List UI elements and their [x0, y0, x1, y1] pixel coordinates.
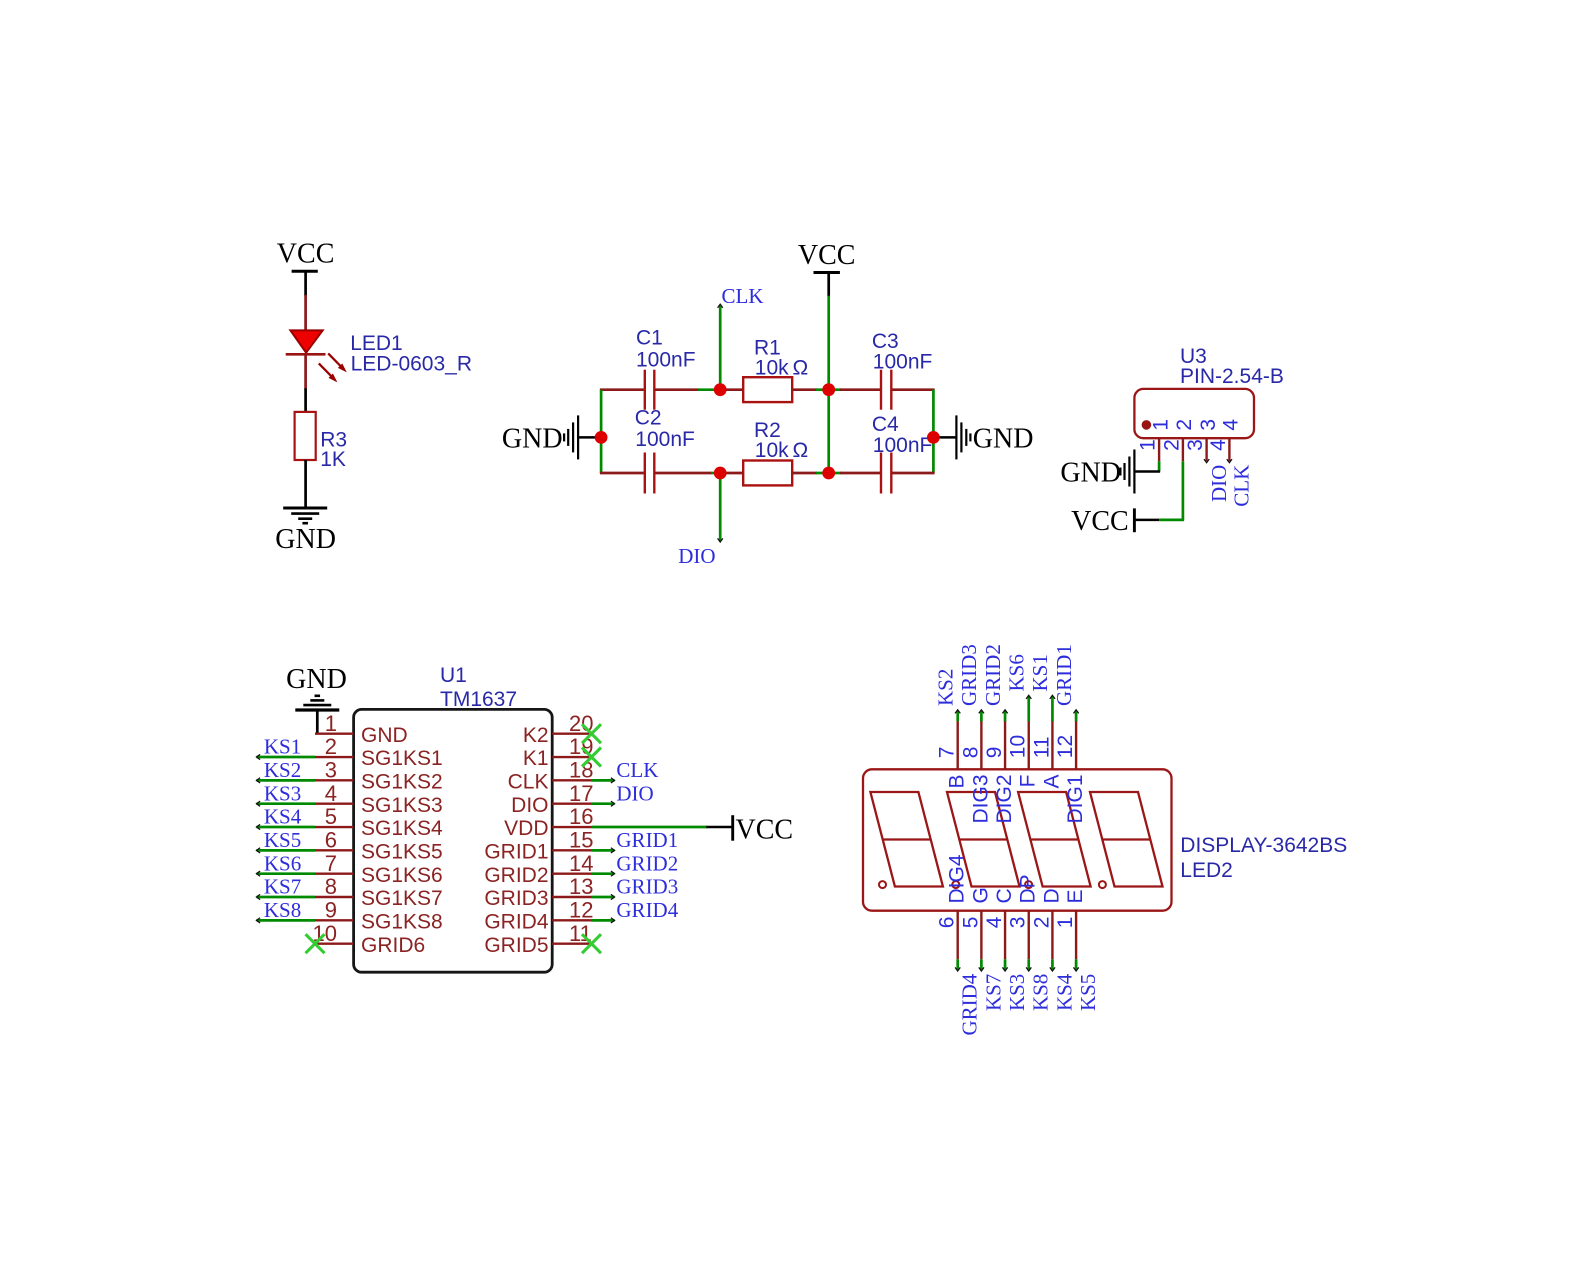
junction node DIO bottom: [714, 467, 727, 480]
LED2 pin name DIG3: [969, 775, 992, 824]
svg-text:U1: U1: [440, 664, 467, 687]
U1 pin 19 stub: [552, 756, 591, 758]
wire GRID1 (U1): [592, 848, 615, 853]
label KS2 net: [264, 758, 301, 782]
label LED2 refdes: [1180, 859, 1233, 882]
U3 pin 3 number (inside): [1197, 419, 1220, 431]
LED2 pin name C: [993, 888, 1016, 903]
svg-text:KS3: KS3: [1005, 974, 1029, 1011]
label GND (filter right): [973, 423, 1034, 454]
U1 pin 10 stub: [315, 942, 354, 944]
wire GRID1 (LED2 top pin 12): [1074, 710, 1079, 722]
U1 pin 2 stub: [315, 756, 354, 758]
svg-text:2: 2: [1160, 439, 1183, 451]
label KS8 net: [264, 898, 301, 922]
label C2 refdes: [635, 406, 662, 429]
U1 pin 2 name SG1KS1: [361, 747, 443, 770]
LED2 pin 1 number: [1054, 917, 1077, 929]
svg-text:11: 11: [1030, 736, 1053, 758]
label DIO net (U1): [616, 781, 653, 805]
svg-text:GRID4: GRID4: [958, 973, 982, 1035]
LED2 pin name DIG1: [1064, 775, 1087, 824]
junction node GND right: [927, 431, 940, 444]
svg-text:G: G: [969, 887, 992, 903]
label KS7 net: [264, 875, 301, 899]
svg-text:C3: C3: [872, 330, 899, 353]
svg-text:SG1KS6: SG1KS6: [361, 864, 443, 887]
svg-text:E: E: [1064, 889, 1087, 903]
U3 pin 1 stub: [1158, 438, 1160, 461]
svg-text:VCC: VCC: [1071, 506, 1129, 537]
svg-text:GRID5: GRID5: [484, 934, 548, 957]
LED2 pin 7 number: [936, 747, 959, 759]
VCC port (U1): [733, 815, 793, 846]
wire KS5 (LED2 bottom pin 1): [1074, 959, 1079, 971]
svg-text:1: 1: [325, 711, 337, 736]
label GRID1 net (U1): [616, 828, 678, 852]
LED2 pin 1 stub: [1075, 911, 1077, 960]
LED2 pin name E: [1064, 889, 1087, 903]
LED2 pin 4 number: [983, 916, 1006, 928]
label CLK net: [722, 284, 764, 308]
label LED1 refdes: [350, 332, 403, 355]
label GND (filter left): [502, 423, 563, 454]
svg-text:VCC: VCC: [277, 239, 335, 270]
LED LED1: [286, 295, 347, 390]
svg-text:9: 9: [983, 747, 1006, 759]
label U1 refdes: [440, 664, 467, 687]
svg-text:14: 14: [569, 851, 593, 876]
svg-text:18: 18: [569, 758, 593, 783]
svg-text:KS8: KS8: [264, 898, 301, 922]
label C1 value: [636, 349, 696, 372]
label GRID3 net (LED2 top): [957, 644, 981, 706]
U1 pin 4 number: [325, 781, 337, 806]
LED2 pin 8 stub: [980, 720, 982, 769]
svg-text:CLK: CLK: [722, 284, 764, 308]
decimal point circle digit 4: [1099, 881, 1106, 888]
svg-text:DISPLAY-3642BS: DISPLAY-3642BS: [1180, 834, 1347, 857]
svg-text:GND: GND: [1060, 458, 1121, 489]
U1 pin 6 number: [325, 828, 337, 853]
U3 pin 1 number (outside): [1137, 439, 1160, 451]
wire GRID2 (LED2 top pin 9): [1002, 710, 1007, 722]
svg-text:D: D: [1040, 888, 1063, 903]
svg-text:KS2: KS2: [933, 669, 957, 706]
ground symbol (filter right): [933, 415, 970, 459]
svg-text:C: C: [993, 888, 1016, 903]
wire VCC to LED1 anode: [304, 271, 307, 296]
label KS4 net (LED2 bottom): [1052, 973, 1076, 1011]
svg-text:KS2: KS2: [264, 758, 301, 782]
U1 pin 13 number: [569, 874, 593, 899]
svg-text:GRID2: GRID2: [484, 864, 548, 887]
wire R2 to VCC rail bottom: [792, 472, 829, 475]
svg-text:1K: 1K: [320, 448, 346, 471]
connector U3 body: [1134, 389, 1254, 438]
U1 pin 7 name SG1KS6: [361, 864, 443, 887]
U1 pin 2 number: [325, 734, 337, 759]
LED2 pin name G: [969, 887, 992, 903]
U3 pin4 netport tick: [1227, 459, 1232, 463]
LED2 pin name B: [946, 775, 969, 789]
svg-text:CLK: CLK: [616, 758, 658, 782]
wire C3 to right rail: [892, 388, 934, 391]
label KS2 net (LED2 top): [933, 669, 957, 706]
LED2 pin 3 stub: [1028, 911, 1030, 960]
U1 pin 15 stub: [552, 849, 591, 851]
svg-text:DIG3: DIG3: [969, 775, 992, 824]
U1 pin 12 number: [569, 898, 593, 923]
wire GRID2 (U1): [592, 871, 615, 876]
svg-text:5: 5: [959, 917, 982, 929]
label C1 refdes: [636, 327, 663, 350]
svg-text:KS3: KS3: [264, 781, 301, 805]
svg-text:6: 6: [936, 917, 959, 929]
label R3 value 1K: [320, 448, 346, 471]
wire KS3 (LED2 bottom pin 4): [1002, 959, 1007, 971]
svg-text:1: 1: [1149, 419, 1172, 431]
U1 pin 17 name DIO: [511, 794, 548, 817]
wire U1 pin16 VDD to VCC: [592, 826, 733, 829]
label KS6 net (LED2 top): [1004, 654, 1028, 691]
U3 pin 4 number (inside): [1220, 419, 1243, 431]
U1 pin 8 number: [325, 874, 337, 899]
wire U3 pin2 to VCC: [1159, 461, 1184, 520]
U1 pin 7 stub: [315, 872, 354, 874]
U3 pin-1 mark dot: [1142, 420, 1152, 430]
LED2 pin 12 number: [1054, 735, 1077, 758]
U3 pin 3 stub: [1205, 438, 1207, 461]
svg-text:KS1: KS1: [264, 735, 301, 759]
svg-text:1: 1: [1054, 917, 1077, 929]
svg-text:KS7: KS7: [981, 974, 1005, 1011]
svg-text:SG1KS7: SG1KS7: [361, 887, 443, 910]
svg-text:C1: C1: [636, 327, 663, 350]
wire KS6 (U1 pin 7): [257, 871, 316, 876]
svg-text:KS5: KS5: [1076, 974, 1100, 1011]
LED2 pin 5 stub: [980, 911, 982, 960]
svg-text:4: 4: [1207, 439, 1230, 451]
wire R3 to GND: [304, 460, 307, 508]
LED2 pin 10 number: [1007, 735, 1030, 758]
svg-text:12: 12: [1054, 735, 1077, 758]
svg-text:SG1KS8: SG1KS8: [361, 911, 443, 934]
svg-text:SG1KS2: SG1KS2: [361, 771, 443, 794]
IC U1 body: [354, 709, 553, 972]
svg-text:10k: 10k: [755, 439, 789, 462]
label R2 value 10k ohm: [755, 439, 808, 462]
capacitor C3: [881, 370, 891, 410]
U1 pin 12 stub: [552, 919, 591, 921]
svg-text:GRID1: GRID1: [1052, 644, 1076, 706]
U1 pin 11 stub: [552, 942, 591, 944]
svg-text:KS4: KS4: [1052, 973, 1076, 1011]
no-connect X (U1 pin 11): [582, 934, 601, 953]
label C3 value: [873, 351, 933, 374]
svg-text:GRID2: GRID2: [981, 644, 1005, 706]
svg-text:8: 8: [325, 874, 337, 899]
svg-text:1: 1: [1137, 439, 1160, 451]
label GRID2 net (U1): [616, 851, 678, 875]
junction node CLK top: [714, 383, 727, 396]
svg-text:TM1637: TM1637: [440, 688, 517, 711]
wire KS7 (U1 pin 8): [257, 894, 316, 899]
label KS3 net (LED2 bottom): [1005, 974, 1029, 1011]
svg-text:CLK: CLK: [508, 771, 549, 794]
ground symbol (LED branch): [283, 508, 327, 523]
svg-text:DIG2: DIG2: [993, 775, 1016, 824]
U1 pin 20 stub: [552, 733, 591, 735]
svg-text:DIO: DIO: [511, 794, 548, 817]
svg-text:DP: DP: [1017, 874, 1040, 903]
U1 pin 5 stub: [315, 826, 354, 828]
svg-text:100nF: 100nF: [873, 351, 933, 374]
U1 pin 20 name K2: [523, 724, 549, 747]
U1 pin 1 number: [325, 711, 337, 736]
U1 pin 8 stub: [315, 896, 354, 898]
wire C4 to right rail: [892, 472, 934, 475]
svg-text:VCC: VCC: [736, 815, 794, 846]
wire CLK node to R1: [720, 388, 743, 391]
U3 pin 4 stub: [1228, 438, 1230, 461]
ground symbol (U1 pin1): [295, 696, 339, 710]
LED2 pin 6 number: [936, 917, 959, 929]
LED2 pin 6 stub: [957, 911, 959, 960]
svg-text:KS7: KS7: [264, 875, 301, 899]
wire KS4 (LED2 bottom pin 2): [1050, 959, 1055, 971]
U1 pin 6 name SG1KS5: [361, 841, 443, 864]
label R2 refdes: [754, 419, 781, 442]
label C4 value: [873, 434, 933, 457]
wire R1 to VCC node: [792, 388, 829, 391]
label DIO (U3 pin3): [1207, 465, 1231, 502]
svg-text:10: 10: [1007, 735, 1030, 758]
svg-text:3: 3: [1184, 439, 1207, 451]
U1 pin 9 stub: [315, 919, 354, 921]
label KS5 net (LED2 bottom): [1076, 974, 1100, 1011]
U1 pin 5 name SG1KS4: [361, 817, 443, 840]
svg-text:GRID3: GRID3: [484, 887, 548, 910]
LED2 pin name A: [1040, 775, 1063, 789]
capacitor C2: [645, 453, 655, 494]
svg-text:Ω: Ω: [793, 357, 809, 380]
node CLK netport arrow and wire: [718, 304, 723, 390]
svg-text:4: 4: [325, 781, 337, 806]
svg-text:SG1KS1: SG1KS1: [361, 747, 443, 770]
svg-text:3: 3: [325, 758, 337, 783]
VCC port (filter): [798, 240, 856, 297]
U1 pin 8 name SG1KS7: [361, 887, 443, 910]
label C2 value: [635, 428, 695, 451]
svg-text:C2: C2: [635, 406, 662, 429]
svg-text:DIO: DIO: [1207, 465, 1231, 502]
U1 pin 3 name SG1KS2: [361, 771, 443, 794]
U1 pin 18 number: [569, 758, 593, 783]
LED2 pin 10 stub: [1028, 720, 1030, 769]
capacitor C1: [645, 370, 655, 410]
U1 pin 18 name CLK: [508, 771, 549, 794]
LED2 pin name F: [1017, 775, 1040, 788]
svg-text:GRID3: GRID3: [616, 875, 678, 899]
wire GRID4 (U1): [592, 918, 615, 923]
wire KS7 (LED2 bottom pin 5): [979, 959, 984, 971]
U1 pin 13 stub: [552, 896, 591, 898]
svg-text:4: 4: [1220, 419, 1243, 431]
label C4 refdes: [872, 413, 899, 436]
svg-text:100nF: 100nF: [873, 434, 933, 457]
svg-text:15: 15: [569, 828, 593, 853]
svg-text:SG1KS4: SG1KS4: [361, 817, 443, 840]
label KS5 net: [264, 828, 301, 852]
svg-text:2: 2: [1030, 917, 1053, 929]
svg-text:5: 5: [325, 804, 337, 829]
svg-text:GRID2: GRID2: [616, 851, 678, 875]
wire KS5 (U1 pin 6): [257, 848, 316, 853]
wire KS8 (LED2 bottom pin 3): [1026, 959, 1031, 971]
LED2 pin 9 number: [983, 747, 1006, 759]
svg-text:SG1KS3: SG1KS3: [361, 794, 443, 817]
svg-text:KS6: KS6: [1004, 654, 1028, 691]
LED2 pin name D: [1040, 888, 1063, 903]
LED2 pin 5 number: [959, 917, 982, 929]
U1 pin 16 stub: [552, 826, 591, 828]
wire KS8 (U1 pin 9): [257, 918, 316, 923]
label U3 refdes: [1180, 345, 1207, 368]
wire GND to U1 pin1: [316, 710, 319, 734]
wire top row left segment: [600, 388, 644, 391]
junction node VCC bottom: [822, 467, 835, 480]
svg-text:KS4: KS4: [264, 805, 302, 829]
U1 pin 15 number: [569, 828, 593, 853]
wire KS3 (U1 pin 4): [257, 801, 316, 806]
label GND (U1): [286, 664, 347, 695]
svg-text:16: 16: [569, 804, 593, 829]
svg-text:VDD: VDD: [504, 817, 548, 840]
wire VCC vertical (net VCC): [827, 296, 830, 473]
svg-text:2: 2: [1173, 419, 1196, 431]
svg-text:GRID4: GRID4: [484, 911, 549, 934]
U1 pin 14 number: [569, 851, 593, 876]
U1 pin 17 stub: [552, 802, 591, 804]
U1 pin 14 stub: [552, 872, 591, 874]
svg-text:KS1: KS1: [1028, 654, 1052, 691]
label KS3 net: [264, 781, 301, 805]
svg-text:8: 8: [959, 747, 982, 759]
decimal point circle digit 2: [952, 881, 959, 888]
U1 pin 15 name GRID1: [484, 841, 548, 864]
svg-text:DIG4: DIG4: [946, 854, 969, 903]
U1 pin 10 name GRID6: [361, 934, 425, 957]
LED2 pin name DIG2: [993, 775, 1016, 824]
U1 pin 17 number: [569, 781, 593, 806]
LED2 pin 4 stub: [1004, 911, 1006, 960]
LED2 pin 12 stub: [1075, 720, 1077, 769]
label KS7 net (LED2 bottom): [981, 974, 1005, 1011]
wire KS4 (U1 pin 5): [257, 824, 316, 829]
seven-segment digit 2 outline: [947, 792, 1020, 887]
wire DIO (U1): [592, 801, 615, 806]
wire GRID3 (LED2 top pin 8): [979, 710, 984, 722]
U1 pin 4 name SG1KS3: [361, 794, 443, 817]
svg-text:CLK: CLK: [1230, 465, 1254, 507]
label CLK net (U1): [616, 758, 658, 782]
label DISPLAY-3642BS value: [1180, 834, 1347, 857]
decimal point circle digit 1: [879, 881, 886, 888]
LED2 pin 2 stub: [1051, 911, 1053, 960]
svg-text:K2: K2: [523, 724, 549, 747]
resistor R2: [743, 461, 792, 486]
svg-text:SG1KS5: SG1KS5: [361, 841, 443, 864]
svg-text:3: 3: [1197, 419, 1220, 431]
LED2 pin 9 stub: [1004, 720, 1006, 769]
U3 pin3 netport tick: [1204, 459, 1209, 463]
U3 pin 3 number (outside): [1184, 439, 1207, 451]
U1 pin 4 stub: [315, 802, 354, 804]
wire KS1 (U1 pin 2): [257, 754, 316, 759]
wire bottom node to C4: [829, 472, 880, 475]
LED2 pin name DIG4: [946, 854, 969, 903]
label KS1 net: [264, 735, 301, 759]
no-connect X (U1 pin 20): [582, 724, 601, 743]
svg-text:GND: GND: [973, 423, 1034, 454]
label GRID4 net (LED2 bottom): [958, 973, 982, 1035]
U1 pin 10 number: [313, 921, 337, 946]
svg-text:7: 7: [325, 851, 337, 876]
svg-text:6: 6: [325, 828, 337, 853]
U3 pin 1 number (inside): [1149, 419, 1172, 431]
LED2 pin 7 stub: [957, 720, 959, 769]
no-connect X (U1 pin 19): [582, 748, 601, 767]
label GRID3 net (U1): [616, 875, 678, 899]
svg-text:KS6: KS6: [264, 851, 301, 875]
svg-text:GRID3: GRID3: [957, 644, 981, 706]
VCC port (LED branch): [277, 239, 335, 272]
svg-text:K1: K1: [523, 747, 549, 770]
label KS4 net: [264, 805, 302, 829]
ground symbol (filter left): [564, 415, 601, 459]
wire GRID4 (LED2 bottom pin 6): [955, 959, 960, 971]
wire left rail vertical: [600, 390, 603, 473]
U1 pin 7 number: [325, 851, 337, 876]
svg-text:17: 17: [569, 781, 593, 806]
svg-text:3: 3: [1007, 917, 1030, 929]
seven-segment digit 3 outline: [1018, 792, 1091, 887]
svg-text:Ω: Ω: [793, 439, 809, 462]
wire KS6 (LED2 top pin 10): [1026, 695, 1031, 721]
U1 pin 3 number: [325, 758, 337, 783]
wire C1 to CLK node: [655, 388, 720, 391]
svg-text:GRID1: GRID1: [616, 828, 678, 852]
capacitor C4: [881, 453, 891, 494]
U3 pin 4 number (outside): [1207, 439, 1230, 451]
svg-text:10k: 10k: [755, 357, 789, 380]
label R3 refdes: [320, 428, 347, 451]
decimal point circle digit 3: [1025, 881, 1032, 888]
wire KS2 (LED2 top pin 7): [955, 710, 960, 722]
svg-text:100nF: 100nF: [636, 349, 696, 372]
label LED-0603_R value: [351, 352, 472, 375]
svg-text:2: 2: [325, 734, 337, 759]
U1 pin 14 name GRID2: [484, 864, 548, 887]
resistor R1: [743, 377, 792, 402]
svg-text:KS8: KS8: [1029, 974, 1053, 1011]
LED2 pin 11 number: [1030, 736, 1053, 758]
svg-text:GRID4: GRID4: [616, 898, 678, 922]
label R1 refdes: [754, 337, 781, 360]
label GRID1 net (LED2 top): [1052, 644, 1076, 706]
svg-text:GND: GND: [275, 524, 336, 555]
